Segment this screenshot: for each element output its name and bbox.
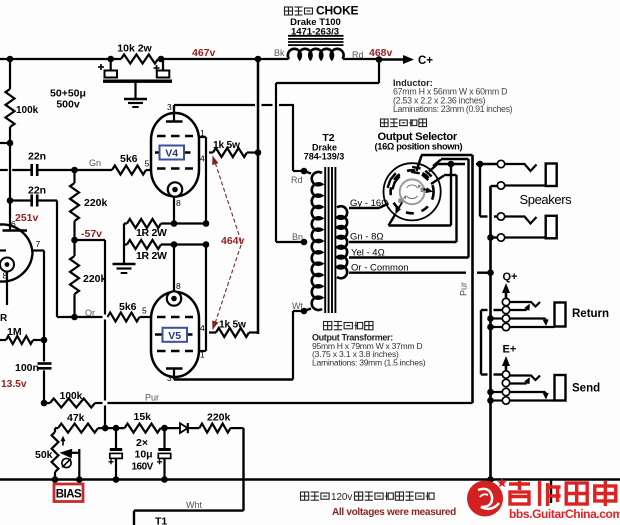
- svg-text:1471-263/3: 1471-263/3: [291, 27, 339, 38]
- resistor 47k: [58, 412, 98, 433]
- svg-text:Gn - 8Ω: Gn - 8Ω: [350, 232, 384, 243]
- resistor 220k grid leak V4: [70, 170, 108, 240]
- wire V3 plate down: [9, 143, 11, 201]
- arrow E+: [502, 356, 510, 375]
- resistor 100k NFB: [44, 391, 95, 408]
- svg-text:Q+: Q+: [503, 271, 518, 283]
- wire B+ top rail 467v: [0, 58, 379, 60]
- wire B+ screen bus: [257, 59, 260, 334]
- label T2: [322, 132, 334, 144]
- svg-text:Rd: Rd: [352, 50, 364, 60]
- svg-text:Bn: Bn: [292, 232, 303, 242]
- svg-text:15k: 15k: [134, 411, 152, 423]
- svg-text:Return: Return: [572, 308, 609, 320]
- wire Or row: [57, 316, 103, 318]
- svg-text:R: R: [0, 313, 8, 324]
- wire V5 g3 to cathode bus: [199, 245, 207, 352]
- node Or junction: [71, 308, 95, 320]
- svg-text:Yel - 4Ω: Yel - 4Ω: [351, 248, 385, 259]
- node Wt tap: [292, 301, 307, 314]
- junction dots cathode row 1: [171, 220, 210, 227]
- svg-text:Bk: Bk: [274, 48, 285, 58]
- svg-text:C+: C+: [418, 55, 433, 67]
- node Rd tap: [291, 168, 307, 185]
- svg-text:1R 2W: 1R 2W: [136, 250, 167, 262]
- label Send: [572, 383, 600, 395]
- svg-text:251v: 251v: [15, 212, 39, 224]
- wire to C+ with arrow: [379, 55, 433, 67]
- wire V3 cathode stub: [6, 272, 8, 306]
- node V3 plate / stub: [0, 140, 13, 147]
- cathode V5: [167, 291, 181, 305]
- svg-text:100k: 100k: [60, 391, 83, 402]
- label Wht: [186, 500, 203, 510]
- svg-text:CHOKE: CHOKE: [316, 4, 359, 18]
- resistor 1R 2W upper: [124, 219, 206, 239]
- label Output Selector: [378, 131, 458, 143]
- svg-text:220k: 220k: [83, 273, 107, 285]
- wire primary hooks: [304, 171, 311, 311]
- resistor 1k 5w screen V5: [209, 320, 258, 338]
- pin 3 V5: [167, 373, 172, 383]
- resistor 15k: [125, 411, 161, 433]
- wire cathode rows to ground: [123, 224, 125, 265]
- pin 8 V5: [176, 281, 181, 291]
- wire V4 g3 to cathode bus: [199, 137, 207, 224]
- triode V3 phase inverter (partial): [0, 201, 33, 282]
- pin 4 V5: [200, 323, 205, 333]
- wiper arrow lower left: [395, 203, 402, 215]
- svg-text:E+: E+: [503, 344, 517, 356]
- capacitor 10u 160V second: [157, 428, 171, 479]
- jack Return J3: [502, 298, 565, 330]
- junction dots send on bus: [487, 389, 502, 404]
- svg-text:1k 5w: 1k 5w: [213, 140, 240, 151]
- inductor choke L1 Drake T100: [288, 36, 344, 59]
- svg-text:V5: V5: [168, 330, 181, 342]
- wiper arrow right: [424, 187, 434, 193]
- ground cathode: [113, 264, 136, 273]
- wire sleeve bus to J2: [480, 164, 497, 217]
- svg-text:Laminations: 39mm (1.5 inches): Laminations: 39mm (1.5 inches): [312, 357, 426, 367]
- svg-text:160V: 160V: [132, 462, 154, 473]
- wire selector contact to speaker row: [429, 164, 498, 172]
- svg-text:T1: T1: [155, 516, 167, 525]
- wire Yel 4 ohm tap: [349, 248, 469, 259]
- jack speakers J2: [497, 213, 556, 241]
- junction dots ground rail: [52, 476, 494, 483]
- resistor 1R 2W lower: [124, 240, 206, 262]
- svg-text:Gn: Gn: [89, 158, 101, 168]
- svg-text:Rd: Rd: [291, 175, 303, 185]
- label box V4: [160, 146, 185, 160]
- svg-text:5: 5: [145, 159, 150, 169]
- label 16 ohm position shown: [375, 141, 463, 151]
- label BIAS in red box: [54, 484, 83, 502]
- svg-text:13.5v: 13.5v: [1, 379, 27, 390]
- svg-text:8: 8: [176, 281, 181, 291]
- svg-text:100n: 100n: [15, 362, 39, 374]
- junction dots cathode row 2: [171, 241, 210, 248]
- label Speakers: [520, 192, 573, 207]
- svg-text:Wt: Wt: [292, 301, 303, 311]
- note inductor dimensions: [393, 78, 513, 114]
- label Return: [572, 308, 609, 320]
- node -57v bias: [71, 228, 102, 243]
- contact ticks lower left: [390, 173, 399, 183]
- wire Gn 8 ohm tap: [349, 232, 457, 243]
- svg-text:220k: 220k: [84, 197, 108, 209]
- wire V5 cathode rise: [173, 245, 175, 293]
- node Bn tap: [292, 232, 307, 245]
- svg-text:Or - Common: Or - Common: [351, 263, 409, 274]
- wire tip bus: [491, 186, 498, 480]
- svg-text:50k: 50k: [35, 449, 53, 461]
- junction dot Bk: [255, 56, 262, 63]
- arrow Q+: [502, 283, 510, 302]
- svg-text:784-139/3: 784-139/3: [304, 152, 345, 162]
- junction dots caps top: [113, 425, 168, 432]
- svg-text:1: 1: [200, 350, 205, 360]
- wire return-send bracket: [481, 310, 502, 375]
- label Drake T100: [290, 17, 341, 28]
- rotary switch S1 output selector: [384, 163, 441, 220]
- label output transformer chinese: [324, 322, 374, 330]
- wire Gy 16 ohm tap: [349, 198, 389, 209]
- potentiometer 50k bias: [35, 428, 79, 479]
- svg-text:-57v: -57v: [81, 228, 102, 240]
- wire V5 plate to Wt: [174, 311, 304, 380]
- resistor 100k plate load V3: [6, 59, 39, 143]
- svg-text:3: 3: [167, 373, 172, 383]
- pin 1 V5: [200, 350, 205, 360]
- svg-text:22n: 22n: [28, 151, 46, 163]
- node NFB junction: [41, 400, 48, 407]
- svg-text:500v: 500v: [56, 99, 80, 111]
- svg-text:5: 5: [142, 306, 147, 316]
- diode D1: [180, 423, 188, 433]
- resistor 5k6 V4 grid stopper: [75, 153, 152, 175]
- svg-text:All voltages were measured: All voltages were measured: [332, 507, 456, 518]
- junction dot 16 ohm bridge: [448, 161, 455, 168]
- svg-text:Speakers: Speakers: [520, 192, 573, 207]
- transformer core: [325, 167, 335, 313]
- resistor 1k 5w screen V4: [209, 140, 258, 157]
- resistor 220k grid leak V5: [70, 240, 107, 317]
- contact ticks 16 ohm: [388, 180, 395, 190]
- tube V4 power pentode: [151, 105, 199, 197]
- label CHOKE chinese: [285, 4, 359, 18]
- svg-text:Pur: Pur: [459, 282, 469, 296]
- node 467v: [192, 47, 216, 59]
- svg-text:4: 4: [200, 323, 205, 333]
- capacitor 100n: [15, 340, 52, 403]
- svg-text:Laminations: 23mm (0.91 inches: Laminations: 23mm (0.91 inches): [393, 104, 513, 114]
- svg-text:468v: 468v: [369, 47, 393, 59]
- svg-text:10μ: 10μ: [135, 449, 153, 461]
- wire selector 4 ohm riser: [433, 159, 469, 258]
- ground filter cap: [124, 83, 147, 107]
- pin 8 V4: [176, 198, 181, 208]
- label 784-139/3: [304, 152, 345, 162]
- label Rd: [352, 50, 364, 60]
- pin 4 V4: [200, 154, 205, 164]
- svg-text:(16Ω position shown): (16Ω position shown): [375, 141, 463, 151]
- label Q+: [503, 271, 518, 283]
- svg-text:10k 2w: 10k 2w: [117, 43, 152, 55]
- wire bias feed: [75, 240, 106, 428]
- capacitor 10u 160V first: [109, 428, 123, 479]
- junction dot top-left: [7, 56, 14, 63]
- svg-text:47k: 47k: [67, 412, 85, 424]
- pin 7 V3: [36, 239, 41, 249]
- svg-text:bbs.GuitarChina.com: bbs.GuitarChina.com: [509, 507, 620, 521]
- label box V5: [163, 328, 188, 342]
- watermark chinese GuitarChina: [509, 481, 616, 506]
- wire Or common tap: [349, 263, 491, 274]
- label Pur vertical: [459, 282, 469, 296]
- note chinese all voltages measured: [301, 492, 435, 503]
- svg-text:120v: 120v: [331, 492, 352, 503]
- svg-text:Send: Send: [572, 383, 600, 395]
- capacitor 22n lower: [7, 185, 57, 207]
- resistor 5k6 V5 grid stopper: [108, 301, 151, 322]
- contact ticks top (4 ohm): [411, 167, 420, 173]
- pin 6 V3: [11, 219, 16, 229]
- jack speakers J1: [497, 160, 556, 189]
- svg-text:1M: 1M: [7, 326, 22, 338]
- jack Send J4: [502, 371, 565, 404]
- resistor 220k bias: [199, 412, 230, 433]
- junction dot cap A: [107, 56, 114, 63]
- junction dot sleeve bus: [477, 161, 484, 168]
- label 1471-263/3: [291, 27, 339, 38]
- contact ticks upper right: [422, 171, 432, 180]
- node Gn junction: [71, 158, 101, 173]
- svg-text:6: 6: [11, 219, 16, 229]
- svg-text:1R 2W: 1R 2W: [136, 227, 167, 239]
- node 13.5v: [1, 379, 27, 390]
- note output transformer dimensions: [312, 333, 426, 368]
- svg-text:5k6: 5k6: [119, 301, 137, 313]
- wire V4 plate to Rd: [174, 105, 304, 171]
- label R (clipped): [0, 313, 8, 324]
- wire 220k to T1: [134, 428, 244, 525]
- label Bk: [274, 48, 285, 58]
- svg-text:Wht: Wht: [186, 500, 203, 510]
- junction dot tip J2: [487, 234, 497, 241]
- pin 3 V4: [167, 102, 172, 112]
- wire 22n to V5 grid: [56, 201, 58, 318]
- label T1: [155, 516, 167, 525]
- note All voltages were measured: [332, 507, 456, 518]
- node 1M junction: [41, 337, 48, 344]
- pin 8 V3: [3, 271, 8, 281]
- label Drake: [312, 143, 337, 153]
- svg-text:7: 7: [36, 239, 41, 249]
- junction dots return on bus: [487, 315, 502, 330]
- node 468v: [369, 47, 393, 59]
- capacitor 50+50u 500v dual electrolytic: [50, 59, 172, 111]
- tube V5 power pentode: [151, 292, 199, 380]
- svg-text:2×: 2×: [136, 437, 148, 449]
- transformer secondary: [337, 206, 347, 278]
- label 2x 10u 160V: [132, 437, 154, 473]
- svg-text:5k6: 5k6: [120, 153, 138, 165]
- wire 468v to Bn center tap: [276, 60, 379, 243]
- resistor 1M: [0, 326, 44, 344]
- svg-text:V4: V4: [165, 148, 178, 160]
- wire selector top contact to Pur bus: [417, 155, 473, 171]
- transformer T2 output Drake 784-139/3: [312, 172, 322, 310]
- resistor 10k 2w: [117, 43, 158, 64]
- wire Pur NFB bus: [471, 155, 474, 403]
- node 464v with measurement arrows: [212, 156, 244, 331]
- svg-text:220k: 220k: [207, 412, 231, 424]
- cathode V4: [168, 182, 182, 196]
- svg-text:8: 8: [176, 198, 181, 208]
- svg-text:Gy - 16Ω: Gy - 16Ω: [350, 198, 388, 209]
- wire bias row: [55, 427, 244, 429]
- wire V4 cathode drop: [173, 196, 175, 224]
- svg-text:1k 5w: 1k 5w: [219, 320, 246, 331]
- node screen junction V4: [255, 149, 262, 156]
- wire ground rail bottom: [0, 478, 620, 481]
- wire V3 pin7 to divider: [33, 251, 45, 341]
- label output selector chinese: [381, 119, 427, 127]
- node 251v: [15, 212, 39, 224]
- pin 1 V4: [200, 128, 205, 138]
- wire 8 ohm contact loop: [431, 175, 457, 242]
- junction dot cap B: [158, 56, 165, 63]
- svg-text:Pur: Pur: [145, 393, 159, 403]
- svg-text:4: 4: [200, 154, 205, 164]
- svg-text:467v: 467v: [192, 47, 216, 59]
- capacitor 22n upper: [0, 151, 75, 177]
- junction dot common: [487, 269, 494, 276]
- svg-text:BIAS: BIAS: [56, 489, 82, 501]
- wire stub below rail: [550, 480, 552, 504]
- watermark GuitarChina logo: [467, 478, 507, 517]
- wire 16 ohm contact loop: [389, 164, 452, 226]
- junction dot 468v: [376, 56, 383, 63]
- watermark bbs.GuitarChina.com: [509, 507, 620, 521]
- junction dot bias feed: [102, 425, 109, 432]
- svg-text:100k: 100k: [16, 105, 39, 116]
- wire Pur NFB row: [95, 393, 473, 404]
- svg-text:22n: 22n: [28, 185, 46, 197]
- label E+: [503, 344, 517, 356]
- svg-text:3: 3: [167, 102, 172, 112]
